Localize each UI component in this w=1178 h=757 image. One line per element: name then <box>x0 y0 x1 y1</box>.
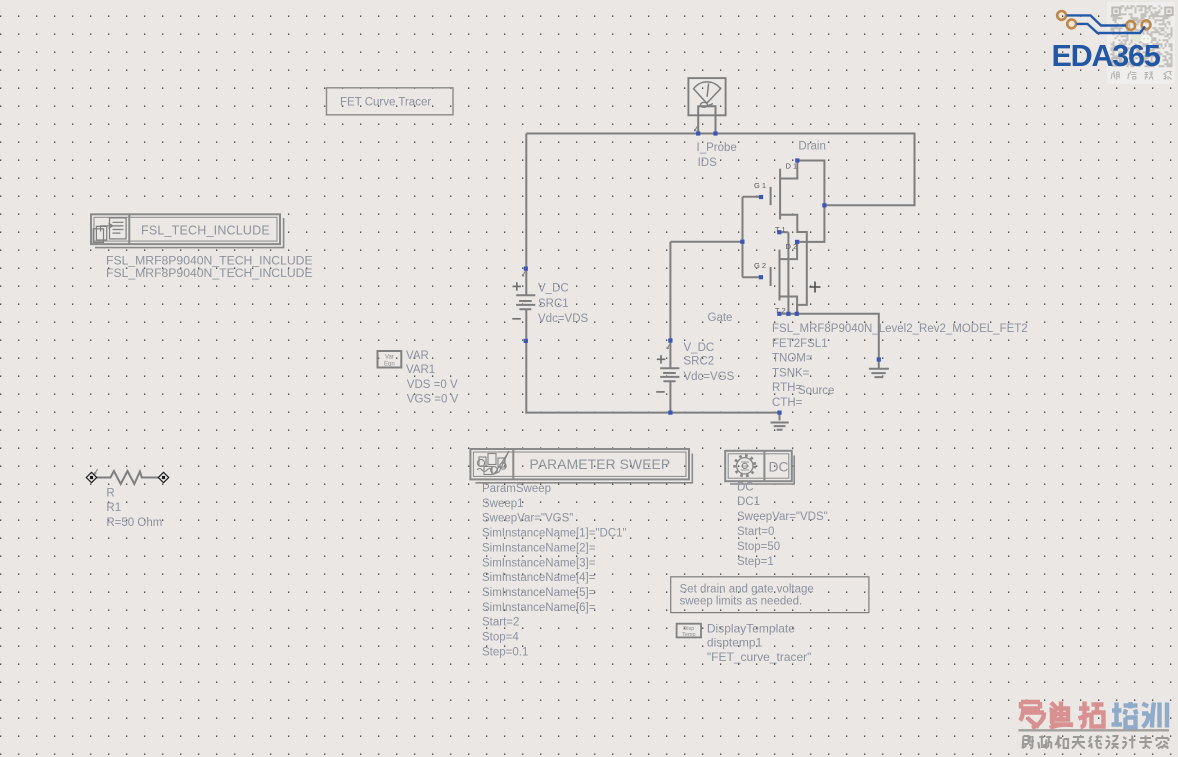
svg-text:TSNK=: TSNK= <box>772 367 810 379</box>
svg-text:R1: R1 <box>106 502 121 514</box>
svg-text:SweepVar="VGS": SweepVar="VGS" <box>482 513 573 525</box>
svg-text:Gate: Gate <box>708 312 733 324</box>
svg-text:R: R <box>106 488 114 500</box>
svg-text:Source: Source <box>798 385 834 397</box>
svg-text:DC1: DC1 <box>737 496 760 508</box>
svg-text:CTH=: CTH= <box>772 397 803 409</box>
svg-text:V_DC: V_DC <box>538 282 569 294</box>
svg-text:Temp: Temp <box>682 632 695 638</box>
svg-text:I_Probe: I_Probe <box>697 142 737 154</box>
svg-text:SweepVar="VDS": SweepVar="VDS" <box>737 511 828 523</box>
svg-text:FSL_TECH_INCLUDE: FSL_TECH_INCLUDE <box>141 224 270 238</box>
svg-text:"FET_curve_tracer": "FET_curve_tracer" <box>707 650 812 664</box>
svg-text:disptemp1: disptemp1 <box>707 635 763 649</box>
svg-text:IDS: IDS <box>698 157 718 169</box>
svg-text:RTH=: RTH= <box>772 382 802 394</box>
svg-text:G 2: G 2 <box>754 261 766 270</box>
svg-text:ParamSweep: ParamSweep <box>482 483 551 495</box>
svg-text:T 1: T 1 <box>775 225 786 234</box>
svg-text:SimInstanceName[6]=: SimInstanceName[6]= <box>482 602 596 614</box>
svg-text:SRC2: SRC2 <box>684 356 715 368</box>
svg-text:T 2: T 2 <box>775 306 786 315</box>
svg-text:FSL_MRF8P9040N_Level2_Rev2_MOD: FSL_MRF8P9040N_Level2_Rev2_MODEL_FET2 <box>772 323 1028 335</box>
svg-text:Start=2: Start=2 <box>482 617 519 629</box>
svg-text:D 2: D 2 <box>786 242 798 251</box>
svg-text:G 1: G 1 <box>754 181 766 190</box>
svg-text:DC: DC <box>769 459 789 474</box>
svg-text:Stop=50: Stop=50 <box>737 541 780 553</box>
svg-text:FET Curve Tracer: FET Curve Tracer <box>340 97 431 109</box>
svg-text:TNOM=: TNOM= <box>772 353 813 365</box>
svg-text:VAR: VAR <box>406 350 429 362</box>
svg-text:SimInstanceName[4]=: SimInstanceName[4]= <box>482 572 596 584</box>
svg-text:DisplayTemplate: DisplayTemplate <box>707 622 795 636</box>
svg-text:SimInstanceName[2]=: SimInstanceName[2]= <box>482 542 596 554</box>
svg-text:VDS =0 V: VDS =0 V <box>407 379 458 391</box>
svg-text:Sweep1: Sweep1 <box>482 498 524 510</box>
svg-text:Set drain and gate voltage: Set drain and gate voltage <box>680 584 814 596</box>
svg-text:FSL_MRF8P9040N_TECH_INCLUDE: FSL_MRF8P9040N_TECH_INCLUDE <box>106 266 313 280</box>
svg-text:Step=1: Step=1 <box>737 556 774 568</box>
svg-text:EDA365: EDA365 <box>1052 39 1161 73</box>
svg-text:Vdc=VDS: Vdc=VDS <box>538 313 589 325</box>
svg-text:SRC1: SRC1 <box>538 298 569 310</box>
svg-text:Step=0.1: Step=0.1 <box>482 646 528 658</box>
svg-text:R=50 Ohm: R=50 Ohm <box>106 517 162 529</box>
svg-text:DC: DC <box>737 481 754 493</box>
svg-text:SimInstanceName[5]=: SimInstanceName[5]= <box>482 587 596 599</box>
svg-text:Vdc=VGS: Vdc=VGS <box>684 371 735 383</box>
svg-text:VGS =0 V: VGS =0 V <box>407 393 459 405</box>
svg-text:Start=0: Start=0 <box>737 526 774 538</box>
svg-text:SimInstanceName[1]="DC1": SimInstanceName[1]="DC1" <box>482 528 627 540</box>
svg-text:VAR1: VAR1 <box>406 364 435 376</box>
svg-text:V_DC: V_DC <box>684 342 715 354</box>
svg-text:Stop=4: Stop=4 <box>482 632 519 644</box>
svg-text:D 1: D 1 <box>786 162 798 171</box>
svg-text:FET2FSL1: FET2FSL1 <box>772 338 828 350</box>
svg-text:sweep limits as needed.: sweep limits as needed. <box>680 595 803 607</box>
svg-text:PARAMETER SWEEP: PARAMETER SWEEP <box>530 457 671 472</box>
svg-text:Drain: Drain <box>798 141 825 153</box>
svg-text:SimInstanceName[3]=: SimInstanceName[3]= <box>482 557 596 569</box>
svg-text:Var: Var <box>385 355 394 361</box>
svg-text:Eqn: Eqn <box>384 361 395 367</box>
